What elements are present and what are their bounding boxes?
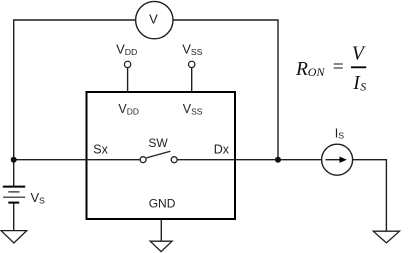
svg-text:V: V [149,11,158,26]
switch SW arm [146,151,170,158]
current source IS arrowhead [340,157,347,163]
svg-text:SS: SS [191,106,203,116]
current source IS arrow shaft [326,159,341,161]
node junction Dx net [275,157,281,163]
pin terminal circle VSS [189,61,195,67]
svg-text:Sx: Sx [93,143,108,157]
wire top-left loop from voltmeter to left rail [14,20,136,186]
wire current source to right ground [353,160,387,231]
pin stub VDD [127,68,129,91]
wire switch throw to current source Dx [177,159,322,161]
svg-text:ON: ON [308,65,326,79]
switch SW throw contact circle [171,157,177,163]
battery VS plate 4 short [8,202,19,204]
current source IS circle [322,144,353,175]
svg-text:S: S [39,195,45,205]
wire GND stub below box [160,220,162,242]
svg-text:SS: SS [191,47,203,57]
svg-text:Dx: Dx [214,143,230,157]
svg-text:DD: DD [125,47,138,57]
svg-text:S: S [338,131,344,141]
formula fraction bar [351,66,366,68]
wire left rail to switch pole Sx [14,159,141,161]
svg-text:=: = [332,57,345,78]
switch SW pole contact circle [140,157,146,163]
pin terminal circle VDD [124,61,130,67]
svg-text:S: S [360,79,366,93]
DUT box [87,92,236,219]
pin stub VSS [191,68,193,91]
battery VS plate 3 long [3,196,25,198]
voltmeter V [136,1,173,38]
battery VS plate 1 long [3,186,25,188]
svg-text:R: R [295,59,308,80]
ground right [373,231,399,243]
svg-text:SW: SW [148,136,168,150]
ground middle below box [150,241,172,251]
wire top-right loop from voltmeter down to Dx node [173,20,278,160]
svg-text:GND: GND [149,197,176,211]
svg-text:DD: DD [127,106,139,116]
svg-text:V: V [352,43,366,64]
node junction left rail [11,157,17,163]
wire battery bottom stub [13,203,15,231]
battery VS plate 2 short [8,191,19,193]
ground left [1,231,27,243]
